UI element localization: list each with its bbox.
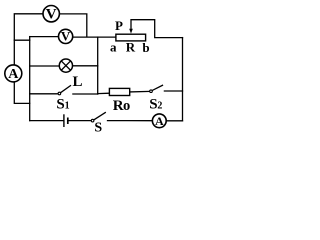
svg-text:S: S	[149, 97, 157, 113]
svg-text:S: S	[56, 97, 64, 113]
svg-text:a: a	[110, 40, 117, 55]
svg-text:L: L	[72, 74, 82, 90]
svg-text:S: S	[94, 120, 102, 133]
svg-text:A: A	[8, 67, 19, 82]
svg-text:b: b	[142, 40, 149, 55]
svg-text:A: A	[155, 114, 164, 128]
svg-text:1: 1	[65, 101, 70, 112]
svg-text:V: V	[46, 7, 57, 23]
svg-text:o: o	[123, 98, 130, 114]
svg-text:R: R	[126, 40, 136, 55]
svg-text:P: P	[115, 18, 123, 33]
svg-text:V: V	[61, 29, 71, 44]
svg-text:2: 2	[157, 101, 162, 112]
